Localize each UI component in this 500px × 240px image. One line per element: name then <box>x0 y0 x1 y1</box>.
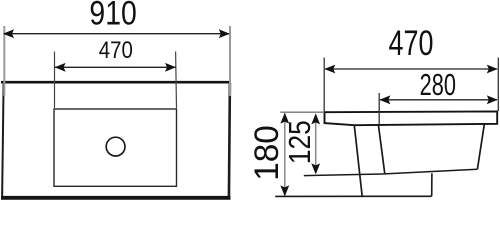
outer rectangle: basin top view outline <box>1 82 231 199</box>
side view: inner left wall (line B) <box>378 125 384 174</box>
dimension 470 top-view: right arrow <box>165 63 176 72</box>
dimension 180: bottom arrow <box>280 185 289 196</box>
side view top extension line from rim to height dimensions <box>280 111 324 113</box>
dimension 910: dimension line <box>4 33 229 35</box>
side view: rim slab outline <box>325 111 498 125</box>
dimension 910: extension line right <box>229 26 231 96</box>
side view: outer left wall (line A) <box>354 125 362 196</box>
side view: bowl bottom line with left extension <box>304 169 478 175</box>
dimension 470 side-view: extension line right <box>497 58 499 112</box>
dimension 180: dimension line <box>284 114 286 196</box>
dimension 125: dimension line <box>315 115 317 174</box>
dimension 910: extension line left <box>3 26 5 96</box>
dimension 470 top-view: extension line right <box>175 52 178 109</box>
dimension 470 top-view: dimension line <box>55 66 176 68</box>
dimension 910: left arrow <box>3 29 14 38</box>
dimension 125: top arrow <box>311 113 320 124</box>
svg-text:470: 470 <box>99 36 133 63</box>
dimension 910: right arrow <box>219 29 230 38</box>
dimension 470 side-view: dimension line <box>325 68 497 70</box>
dimension 125: bottom arrow <box>311 163 320 174</box>
svg-text:910: 910 <box>89 0 136 32</box>
side view: step at drain block <box>431 173 433 196</box>
svg-text:280: 280 <box>420 68 456 102</box>
dimension 470 side-view: extension line left <box>323 58 325 112</box>
svg-text:470: 470 <box>389 24 434 63</box>
dimension 470 side-view: right arrow <box>487 65 498 74</box>
drain hole circle <box>106 137 125 156</box>
dimension 280: right arrow <box>487 95 498 104</box>
dimension 180: top arrow <box>280 113 289 124</box>
svg-text:180: 180 <box>249 125 286 181</box>
dimension 470 top-view: left arrow <box>55 63 66 72</box>
dimension 280: dimension line <box>380 99 497 101</box>
inner rectangle: bowl top view <box>54 109 177 186</box>
side view: right wall <box>477 124 484 169</box>
svg-text:125: 125 <box>283 120 317 164</box>
dimension 280: extension line left <box>378 93 380 125</box>
side view: bottom line with left extension <box>275 195 432 197</box>
dimension 280: left arrow <box>379 95 390 104</box>
dimension 470 top-view: extension line left <box>54 52 56 109</box>
dimension 470 side-view: left arrow <box>324 65 335 74</box>
